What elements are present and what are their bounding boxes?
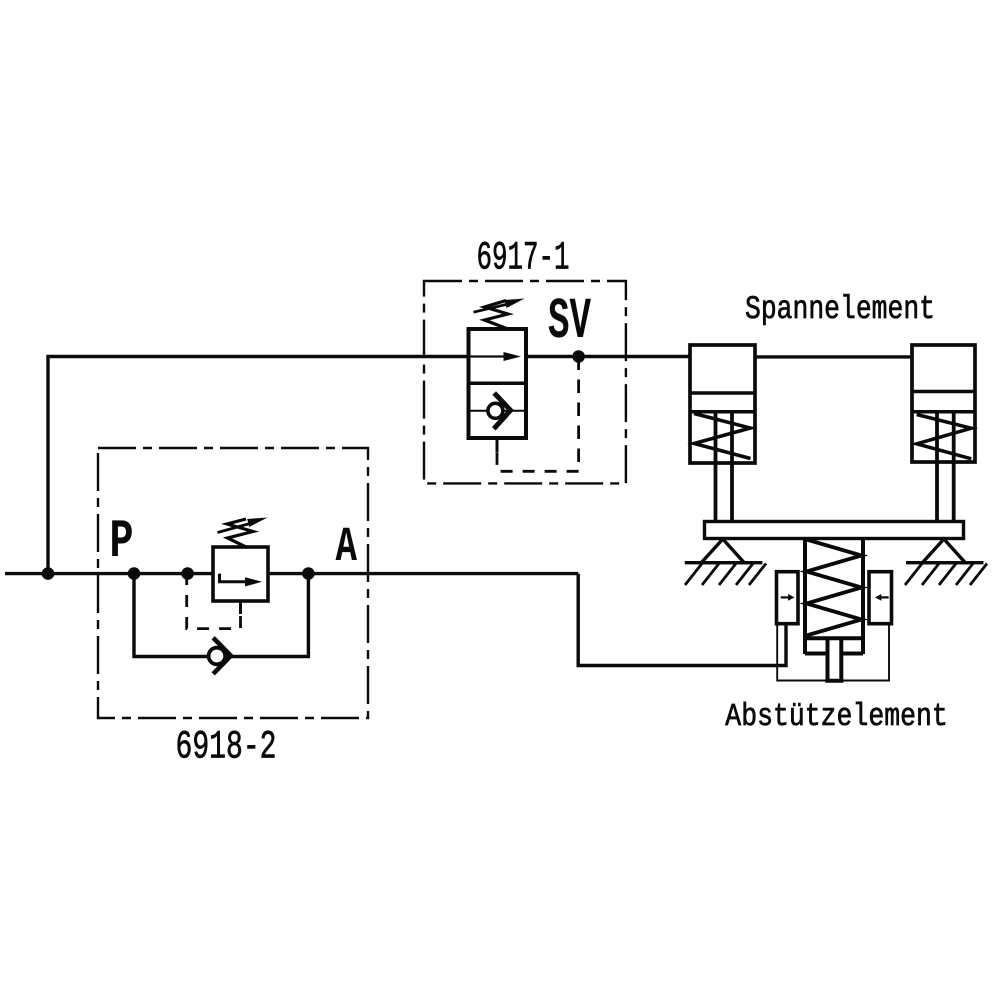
thin flow line bottom cell 6917-1 <box>469 410 527 412</box>
adjustment arrow of 6918-2 <box>218 524 251 533</box>
svg-text:Abstützelement: Abstützelement <box>725 698 948 735</box>
Abstuetzelement plunger rod <box>828 638 842 680</box>
dash-dot enclosure 6918-2 <box>98 448 368 718</box>
arrowhead inside 6918-2 <box>245 577 262 586</box>
cylinder left (Spannelement) <box>690 345 755 463</box>
spring of 6918-2 <box>227 519 253 548</box>
arrowhead in top cell 6917-1 <box>504 352 522 361</box>
Abstuetzelement thin outline box <box>777 622 889 681</box>
svg-text:SV: SV <box>548 290 591 355</box>
wire: left vertical and top main line <box>48 357 469 574</box>
svg-text:6917-1: 6917-1 <box>477 237 570 282</box>
check valve circle 6918-2 <box>209 648 226 665</box>
check valve seat 6917-1 <box>494 393 511 429</box>
spring left cylinder <box>694 414 751 459</box>
cylinder right (Spannelement) <box>912 345 975 462</box>
wire: 6918-2 check valve bypass loop <box>134 574 308 657</box>
wire: between cylinders <box>755 355 912 358</box>
left port arrow <box>781 596 788 598</box>
spring right cylinder <box>917 415 972 459</box>
svg-text:Spannelement: Spannelement <box>745 291 935 328</box>
Abstuetzelement piston line <box>805 636 863 640</box>
piston rod left cylinder <box>716 412 733 522</box>
junction node bypass left <box>128 567 141 580</box>
divider 6917-1 <box>469 382 527 386</box>
svg-text:A: A <box>336 519 358 575</box>
Abstuetzelement housing bottom lips <box>805 652 863 656</box>
left ground hatching <box>685 564 766 586</box>
check valve seat 6918-2 <box>213 638 231 674</box>
pilot stub 6917-1 <box>496 438 499 453</box>
piston lines left cylinder <box>690 393 755 412</box>
platform (workpiece table) <box>705 522 964 539</box>
wire: drop to Abstuetzelement supply <box>578 574 786 666</box>
junction node A / bypass right <box>302 567 315 580</box>
piston lines right cylinder <box>912 392 975 412</box>
right support triangle <box>922 539 965 563</box>
check valve circle 6917-1 <box>488 403 503 418</box>
flow path inside 6918-2 <box>220 574 248 582</box>
left port block <box>777 572 799 624</box>
junction node pilot tap <box>181 567 194 580</box>
right port arrow <box>881 596 888 598</box>
left ground line <box>685 561 763 564</box>
right port block <box>869 572 892 624</box>
Abstuetzelement housing walls <box>805 539 863 655</box>
valve body 6917-1 <box>469 329 527 438</box>
spring of 6917-1 <box>485 301 509 330</box>
pilot line (dashed) of 6917-1 <box>577 357 580 472</box>
pilot line (dashed) of 6918-2 <box>239 601 242 614</box>
piston rod right cylinder <box>937 412 954 522</box>
Abstuetzelement spring <box>807 540 862 636</box>
wire: P supply stub and bottom main line P-A <box>5 572 578 575</box>
junction node SV pilot <box>572 350 585 363</box>
adjustment arrow of 6917-1 <box>474 305 507 313</box>
junction node P-line/left vertical <box>42 567 55 580</box>
svg-text:P: P <box>110 512 134 573</box>
left support triangle <box>701 539 744 563</box>
dash-dot enclosure 6917-1 <box>424 281 626 483</box>
right ground line <box>906 561 984 564</box>
right ground hatching <box>905 564 987 586</box>
svg-text:6918-2: 6918-2 <box>176 726 277 771</box>
pressure regulator 6918-2 valve body <box>213 547 268 601</box>
